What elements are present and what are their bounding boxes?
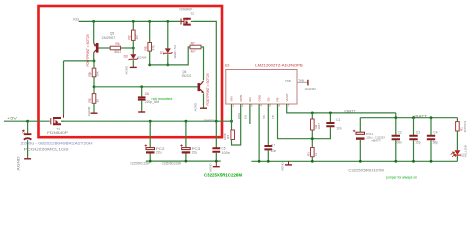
svg-text:R2: R2 — [127, 35, 131, 39]
wire Q6 emitter to AGND — [203, 93, 205, 107]
transistor T1 FDN540P p-mosfet — [51, 114, 65, 125]
wire R9 top — [93, 87, 95, 94]
junction C3 on ground rail — [412, 160, 415, 163]
LED D2 yellow — [451, 150, 461, 157]
wire PC2 column — [149, 121, 151, 147]
wire collector to T1 gate corner — [64, 60, 95, 62]
resistor R4 100K vertical — [231, 130, 235, 140]
svg-text:47k: 47k — [151, 45, 155, 51]
ground AGND under C1 — [16, 156, 31, 171]
wire pin4 GND to ground rail — [258, 104, 260, 161]
ground AGND under C6 — [138, 111, 145, 112]
junction C2 on ground rail — [394, 160, 397, 163]
wire D3 to AGND — [132, 60, 134, 66]
capacitor PC1 100u polarized — [353, 130, 365, 139]
svg-text:FOOTPRINT = SOT23: FOOTPRINT = SOT23 — [86, 34, 90, 66]
svg-text:R4: R4 — [116, 42, 120, 46]
junction C1 tap on VOUT wire — [329, 112, 332, 115]
junction C2 column — [394, 116, 397, 119]
svg-text:jumper for always on: jumper for always on — [386, 176, 417, 180]
wire V33 to D1 — [167, 21, 169, 48]
svg-text:PWREN: PWREN — [204, 119, 215, 123]
junction PC2 on ground rail — [149, 160, 152, 163]
wire R4 bottom loop to RON — [232, 110, 241, 145]
svg-text:2200u - 08202280496R2A2T20H: 2200u - 08202280496R2A2T20H — [21, 140, 93, 145]
wire C4 to ground — [430, 140, 432, 161]
wire C5 to ground rail — [215, 153, 217, 161]
ground AGND on TAB rotated — [305, 80, 317, 91]
junction C6 tap — [140, 85, 143, 88]
junction FB node — [311, 137, 314, 140]
capacitor PC2 22u polarized — [145, 144, 155, 152]
svg-text:2N2222: 2N2222 — [182, 74, 192, 78]
svg-text:AGND: AGND — [87, 106, 91, 116]
svg-text:C1: C1 — [336, 118, 340, 122]
svg-text:39k: 39k — [96, 71, 100, 77]
svg-text:22u: 22u — [192, 151, 198, 155]
svg-text:AGND: AGND — [16, 156, 20, 171]
svg-text:C5: C5 — [221, 146, 225, 150]
wire R1 to LED — [456, 131, 458, 150]
capacitor C5 100n — [212, 148, 220, 151]
junction R5 on V33 — [148, 20, 151, 23]
resistor R1 4k75 vertical — [456, 122, 460, 131]
svg-text:C3225X5R1C226M: C3225X5R1C226M — [130, 161, 149, 165]
svg-text:56p: 56p — [433, 141, 439, 145]
ground AGND on left ground rail — [208, 161, 219, 172]
junction C3 column — [412, 116, 415, 119]
ground AGND under D3 — [125, 65, 137, 75]
svg-text:PCGU220MCL1GS: PCGU220MCL1GS — [24, 147, 69, 152]
wire base node to D3 — [132, 48, 134, 54]
svg-text:D3: D3 — [124, 54, 128, 58]
svg-text:10n: 10n — [271, 149, 277, 153]
wire C6 column — [141, 87, 143, 97]
wire pin3 EN stub — [249, 104, 251, 124]
wire C2 column — [395, 118, 397, 135]
svg-text:YELLOW: YELLOW — [464, 145, 468, 158]
svg-text:C1: C1 — [21, 129, 25, 133]
capacitor C1 10n feedforward — [326, 123, 334, 126]
capacitor C3 15p — [409, 136, 417, 139]
svg-text:AGND: AGND — [125, 65, 129, 75]
svg-text:1k87: 1k87 — [317, 123, 321, 130]
junction PC1 on ground rail — [359, 160, 362, 163]
svg-text:GND: GND — [257, 94, 261, 102]
resistor R2 vertical — [132, 30, 136, 40]
junction C4 column — [430, 116, 433, 119]
svg-text:R3: R3 — [306, 152, 310, 156]
junction D1 on V33 — [166, 20, 169, 23]
junction Q5 emitter on V33 — [92, 20, 95, 23]
svg-text:10n: 10n — [336, 127, 342, 131]
junction VIN column tap — [230, 120, 233, 123]
svg-text:VIN: VIN — [230, 96, 234, 101]
svg-text:1k: 1k — [314, 152, 318, 156]
svg-text:8k11: 8k11 — [115, 50, 122, 54]
wire T2 drain to output corner — [192, 21, 216, 121]
ground AGND on mid rail — [281, 161, 292, 171]
svg-text:D1: D1 — [160, 51, 164, 55]
wire C6 to ground — [141, 101, 143, 111]
wire R4 to R2/D3 node — [121, 47, 134, 49]
svg-text:LMZ12002TZ-ADJ/NOPB: LMZ12002TZ-ADJ/NOPB — [255, 63, 303, 67]
resistor R5 vertical — [148, 43, 152, 52]
svg-text:T2: T2 — [190, 12, 194, 16]
svg-text:22u: 22u — [156, 151, 162, 155]
wire TAB pin — [297, 81, 307, 83]
capacitor C1 electrolytic 2200u — [22, 130, 31, 140]
ground AGND under R9 — [87, 106, 98, 116]
wire R5 to feedback node — [149, 51, 151, 65]
resistor R4 8k11 horizontal — [110, 46, 120, 50]
svg-text:C3225X5R1C226M: C3225X5R1C226M — [204, 173, 242, 178]
junction C5 on ground rail — [215, 160, 218, 163]
resistor R9 vertical — [92, 94, 96, 104]
capacitor C4 56p — [427, 136, 435, 139]
wire Q5 emitter — [93, 21, 95, 43]
svg-text:R7: R7 — [191, 42, 195, 46]
wire R7 to Q6 collector — [201, 47, 204, 80]
wire mid ground rail — [251, 160, 457, 162]
wire +5V input to T1 — [4, 120, 50, 122]
resistor R8 vertical — [92, 68, 96, 77]
junction PC3 on ground rail — [185, 160, 188, 163]
junction C7 on rail — [267, 160, 270, 163]
wire PC2 to ground rail — [149, 154, 151, 162]
svg-text:1k: 1k — [96, 99, 100, 103]
ground AGND under Q6 — [193, 102, 207, 112]
wire PC1 to ground — [359, 140, 361, 162]
wire C1 feedforward column — [329, 113, 331, 122]
svg-text:R5: R5 — [144, 46, 148, 50]
wire R8 to mid node — [93, 77, 95, 87]
wire C1 bottom to FB wire — [329, 127, 331, 129]
junction D1 bottom — [166, 64, 169, 67]
svg-text:C3225X5R0J107M: C3225X5R0J107M — [348, 168, 384, 172]
wire gate column down to T1 — [63, 61, 65, 114]
wire pin7 VOUT down and right — [287, 104, 396, 113]
wire V33 to R5 — [149, 21, 151, 42]
svg-text:AGND: AGND — [193, 102, 197, 112]
capacitor C7 10n — [264, 146, 272, 149]
capacitor PC3 22u polarized — [180, 144, 190, 152]
wire R2 to base node — [132, 40, 134, 48]
wire D1 to feedback rail — [167, 54, 169, 65]
svg-text:C6: C6 — [145, 92, 149, 96]
resistor R2 divider vertical — [311, 119, 315, 130]
svg-text:V33: V33 — [73, 18, 79, 22]
svg-text:FDN540P: FDN540P — [180, 8, 193, 12]
wire mid node to Q6 base — [94, 86, 198, 88]
junction R5 bottom — [148, 64, 151, 67]
transistor Q6 2N2222 npn — [198, 81, 204, 93]
svg-text:FB: FB — [276, 98, 280, 102]
wire divider middle — [311, 130, 313, 148]
svg-text:220p_NM: 220p_NM — [145, 100, 160, 104]
svg-text:RON: RON — [239, 95, 243, 102]
junction collector node — [93, 60, 96, 63]
wire pin1 VIN down — [231, 104, 233, 121]
junction C1 tap — [26, 120, 29, 123]
svg-text:+5V: +5V — [7, 117, 18, 121]
junction PC2 tap — [149, 120, 152, 123]
svg-text:R9: R9 — [88, 98, 92, 102]
junction PC3 tap — [185, 120, 188, 123]
diode D1 zener 5V1 — [163, 48, 172, 54]
wire output column to C5 — [215, 121, 217, 147]
wire pin5 SS to C7 — [267, 104, 269, 145]
wire VBATT corner down — [395, 113, 397, 118]
svg-text:+BATT: +BATT — [371, 138, 381, 142]
svg-text:C3: C3 — [416, 131, 420, 135]
svg-text:AGND: AGND — [208, 162, 212, 172]
wire divider bottom to rail — [311, 157, 313, 162]
wire divider column top — [311, 113, 313, 119]
svg-text:FOOTPRINT = SOT23: FOOTPRINT = SOT23 — [206, 73, 210, 105]
svg-text:C7: C7 — [271, 144, 275, 148]
wire C7 to ground rail — [267, 151, 269, 162]
svg-text:AGND: AGND — [305, 87, 317, 91]
wire C4 column — [430, 118, 432, 135]
svg-text:VBATT: VBATT — [344, 109, 355, 113]
svg-text:R8: R8 — [88, 72, 92, 76]
net V33 rail wire — [79, 20, 181, 22]
wire rail end down to R1 — [456, 118, 458, 122]
wire LED to ground rail — [456, 156, 458, 162]
wire pin2 RON stub — [240, 104, 242, 110]
svg-text:C2: C2 — [398, 131, 402, 135]
wire R9 to AGND — [93, 103, 95, 112]
svg-text:100n: 100n — [222, 151, 230, 155]
svg-text:C4: C4 — [433, 131, 437, 135]
wire V33 to R2 — [132, 21, 134, 30]
svg-text:4k75/1%: 4k75/1% — [463, 120, 467, 132]
svg-text:C3225X5R1C226M: C3225X5R1C226M — [162, 161, 181, 165]
wire C3 column — [413, 118, 415, 135]
svg-text:SS: SS — [267, 97, 271, 101]
junction C4 on ground rail — [430, 160, 433, 163]
wire +BATT lower rail — [360, 117, 457, 119]
svg-text:FDN540P: FDN540P — [47, 131, 69, 135]
diode D3 zener — [129, 54, 138, 60]
svg-text:100K: 100K — [223, 133, 227, 140]
svg-text:15p: 15p — [415, 141, 421, 145]
svg-text:SS: SS — [262, 115, 266, 119]
wire collector node to R8 — [93, 61, 95, 68]
wire C1 to AGND — [27, 140, 29, 157]
wire feedback rail to R7 — [150, 47, 190, 65]
svg-text:+BATT: +BATT — [413, 114, 429, 118]
svg-text:EN: EN — [244, 115, 248, 119]
junction GND pin on rail — [258, 160, 261, 163]
capacitor C2 100n — [392, 136, 400, 139]
svg-text:VOUT: VOUT — [285, 93, 289, 102]
junction output column tap — [215, 120, 218, 123]
svg-text:FB: FB — [271, 115, 275, 119]
wire PC3 column — [185, 121, 187, 147]
junction base node at R2/D3 — [132, 47, 135, 50]
transistor T2 FDN540P p-mosfet — [180, 18, 192, 26]
svg-text:ZENER = 5V1: ZENER = 5V1 — [173, 45, 177, 59]
wire PC1 column — [359, 118, 361, 132]
wire pin6 FB down and right — [278, 104, 331, 139]
junction mid node R8/R9 — [93, 85, 96, 88]
svg-text:BZX84: BZX84 — [137, 55, 147, 59]
wire R4 loop from VIN node — [231, 121, 233, 130]
svg-text:AGND: AGND — [281, 161, 285, 171]
resistor R3 divider vertical — [311, 148, 315, 157]
wire C3 to ground — [413, 140, 415, 161]
transistor Q5 2N2907 pnp — [94, 43, 99, 53]
wire C1 column — [27, 121, 29, 133]
svg-text:U3: U3 — [225, 64, 230, 68]
highlight box (red selection rectangle) — [39, 6, 223, 137]
wire Q5 collector down — [93, 53, 95, 61]
svg-text:4k7: 4k7 — [135, 34, 139, 39]
wire Q5 base to R4 — [99, 47, 111, 49]
wire T1 to VIN junctions — [65, 120, 232, 122]
wire PC3 to ground rail — [185, 154, 187, 162]
resistor R7 4k7 horizontal — [190, 45, 201, 49]
svg-text:4k7: 4k7 — [191, 50, 196, 54]
capacitor C6 not mounted — [138, 97, 146, 99]
wire left ground rail — [146, 160, 221, 162]
wire C2 to ground — [395, 140, 397, 161]
svg-text:EN: EN — [248, 97, 252, 101]
svg-text:TAB: TAB — [298, 79, 304, 83]
svg-text:TAB: TAB — [285, 79, 291, 83]
junction divider bottom on rail — [311, 160, 314, 163]
op-amp U3 LMZ12002 regulator body — [226, 70, 297, 105]
svg-text:2N2907: 2N2907 — [102, 36, 116, 40]
junction divider top on VOUT wire — [311, 112, 314, 115]
junction R2 on V33 — [132, 20, 135, 23]
svg-text:Q5: Q5 — [110, 32, 115, 36]
